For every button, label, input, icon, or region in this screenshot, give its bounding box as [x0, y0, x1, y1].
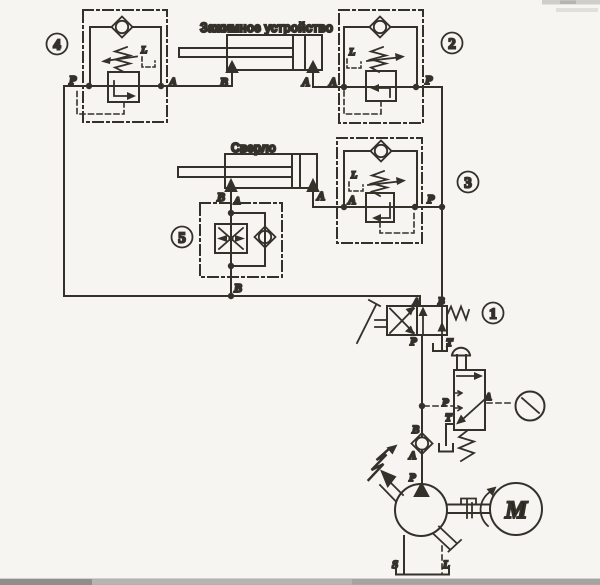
piston line 1 of drill cylinder [291, 154, 293, 188]
check valve of unit 4 [112, 17, 133, 38]
designator circle 2 [442, 33, 463, 54]
valve unit 3 (pressure reducing valve with check valve) enclosure [313, 138, 479, 243]
svg-text:P: P [442, 397, 449, 409]
push button stem of gauge isolator [457, 355, 466, 370]
tank symbol below gauge isolator T [439, 444, 453, 452]
bypass wire left leg of unit 3 [344, 151, 371, 207]
main line A-P of unit 2 [313, 86, 442, 88]
cylinder barrel of clamping cylinder [227, 35, 322, 70]
pilot sensing dashed line of unit 3 [380, 210, 414, 233]
enclosure dash-dot border of unit 2 [339, 10, 423, 123]
junction node at unit 5 top [228, 210, 234, 216]
bypass wire right leg of unit 4 [132, 27, 161, 86]
designator circle 5 [172, 227, 193, 248]
valve unit 4 (pressure reducing valve with check valve) enclosure [47, 10, 233, 122]
clamping cylinder (Зажимное устройство) [179, 20, 344, 89]
designator circle 3 [458, 172, 479, 193]
port A arrow of clamping cylinder [307, 61, 319, 73]
pressure gauge [516, 392, 545, 421]
valve unit 5 (flow control valve with check valve) enclosure [172, 192, 283, 299]
drain line L dashed bracket of unit 2 [347, 59, 361, 68]
svg-text:B: B [437, 296, 445, 307]
check valve of unit 2 [370, 17, 391, 38]
port B arrow of drill cylinder [225, 179, 237, 192]
svg-text:Сверло: Сверло [231, 140, 276, 155]
check valve of unit 5 [255, 227, 276, 248]
long left wire from unit 4 port P down and across to valve 1 port A [64, 86, 420, 306]
drill cylinder (Сверло) [178, 140, 344, 207]
junction node on pump line for gauge pilot [419, 403, 425, 409]
directional valve 1 (4/2 lever operated) [357, 296, 504, 351]
junction node at unit 4 right [158, 83, 164, 89]
svg-text:A: A [484, 392, 492, 403]
enclosure dash-dot border of unit 4 [83, 10, 167, 122]
gauge isolator valve with push button [419, 348, 545, 461]
pump suction wire S [403, 536, 405, 574]
designator circle 1 [483, 303, 504, 324]
junction node on vertical supply wire at unit 3 [439, 204, 445, 210]
enclosure dash-dot border of unit 5 [200, 203, 282, 277]
svg-text:A: A [328, 75, 337, 89]
svg-text:A: A [233, 196, 241, 207]
wire from clamping cylinder port A down and right to unit 2 [313, 72, 344, 87]
flow path arrow inside unit 2 square (points left) [370, 84, 390, 97]
pilot sensing dashed line of unit 2 [344, 90, 381, 114]
spring of unit 4 relief element [115, 47, 130, 72]
drain line L dashed bracket of unit 3 [349, 182, 363, 191]
svg-text:3: 3 [464, 176, 472, 192]
check valve of unit 3 [371, 141, 392, 162]
bypass wire left leg of unit 2 [344, 27, 370, 87]
main line A-P of unit 3 [313, 206, 442, 208]
piston rod of drill cylinder [178, 167, 292, 177]
svg-text:5: 5 [178, 231, 186, 247]
designator circle 4 [47, 34, 68, 55]
drive shaft between pump and motor [447, 505, 490, 514]
check valve on pump line [412, 433, 433, 454]
flow arrow A-P in valve 1 right square [419, 307, 428, 335]
throttle symbol arrows inside unit 5 [217, 228, 245, 249]
svg-text:L: L [348, 47, 355, 58]
adjustment arrow of unit 4 (points left) [101, 57, 137, 65]
tank symbol below valve 1 [433, 344, 447, 351]
pump outlet arrow [414, 483, 429, 497]
port tick P lower on gauge isolator [455, 406, 462, 411]
wire through unit 5 from drill port B [230, 192, 232, 296]
svg-text:L: L [350, 170, 357, 181]
variable displacement solid arrow of pump [380, 470, 397, 489]
svg-text:P: P [425, 73, 433, 87]
svg-text:В: В [233, 281, 242, 295]
electric motor circle [490, 483, 542, 535]
svg-text:A: A [408, 450, 416, 462]
dashed drain wire L to tank [441, 546, 443, 574]
scan artifact smudges at top right edge [542, 0, 600, 12]
svg-text:A: A [301, 75, 310, 89]
svg-text:A: A [347, 193, 356, 207]
spring of unit 2 relief element [371, 47, 386, 72]
svg-text:M: M [504, 497, 528, 524]
bypass wire right leg of unit 2 [390, 27, 417, 87]
reservoir tank below pump [396, 568, 449, 575]
junction node at unit 2 right [413, 84, 419, 90]
wire from drill cylinder port A down and right to unit 3 [313, 191, 344, 207]
rotation direction arc of motor [481, 487, 497, 527]
wire from clamping cylinder port B down to unit 4 line [231, 72, 233, 86]
pump supply wire from valve 1 port P down to pump [421, 335, 423, 484]
svg-text:L: L [442, 559, 450, 571]
junction node at unit 2 left [341, 84, 347, 90]
svg-text:P: P [409, 472, 416, 484]
return spring of valve 1 [447, 307, 469, 320]
main line P-A of unit 4 [64, 85, 232, 87]
adjustment arrow of unit 2 (points right) [367, 53, 405, 61]
bypass wire of unit 5 [231, 213, 265, 266]
svg-text:B: B [411, 424, 419, 436]
wire from valve 1 port T to tank [441, 335, 443, 351]
gauge isolator body [454, 370, 485, 430]
spring of unit 3 relief element [372, 171, 387, 196]
pump case drain stub [433, 527, 461, 552]
zigzag adjustment arrow of pump [369, 445, 398, 481]
valve unit 2 (pressure reducing valve with check valve) enclosure [313, 10, 463, 123]
lever actuator of valve 1 [357, 300, 387, 343]
variable displacement stub channel of pump [380, 479, 403, 502]
port tick P upper on gauge isolator [455, 391, 462, 396]
bypass wire left leg of unit 4 [90, 27, 112, 86]
wire from gauge isolator port T to tank [446, 424, 454, 445]
svg-text:В: В [216, 190, 225, 204]
junction node at unit 3 right [412, 204, 418, 210]
reducing valve body square of unit 2 [366, 71, 396, 101]
svg-text:P: P [69, 73, 77, 87]
junction node where unit 5 wire meets return line [228, 293, 234, 299]
flow arrow at top of gauge isolator (points right) [457, 372, 483, 380]
junction node at unit 3 left [341, 204, 347, 210]
piston line 2 of drill cylinder [299, 154, 301, 188]
scan artifact band at bottom edge [0, 579, 600, 585]
svg-text:2: 2 [448, 37, 456, 53]
flow arrow B-T in valve 1 right square [438, 306, 447, 335]
svg-text:A: A [168, 75, 177, 89]
cylinder barrel of drill cylinder [225, 154, 317, 188]
pilot sensing dashed line of unit 4 [77, 88, 124, 114]
diagonal flow arrow inside gauge isolator [456, 400, 484, 425]
vertical supply wire from unit 2 port P down to valve 1 port B [441, 87, 443, 306]
push button cap of gauge isolator [452, 348, 470, 356]
flow path arrow inside unit 4 square (points right) [114, 81, 136, 100]
throttle body square of unit 5 [215, 224, 247, 253]
spring below gauge isolator [459, 430, 474, 461]
dashed pilot wire from pump line to gauge isolator P [424, 405, 453, 407]
adjustment arrow of unit 3 (points right) [368, 177, 406, 185]
svg-text:1: 1 [489, 307, 497, 323]
junction node at unit 5 bottom [228, 263, 234, 269]
piston line 1 of clamping cylinder [292, 35, 294, 70]
junction node at unit 4 left [86, 83, 92, 89]
valve 1 body [387, 306, 447, 335]
svg-text:P: P [410, 336, 417, 348]
pressure gauge needle [522, 398, 539, 413]
port B arrow of clamping cylinder [226, 61, 238, 73]
piston rod of clamping cylinder [179, 48, 293, 57]
svg-text:S: S [392, 559, 398, 571]
port A arrow of drill cylinder [307, 179, 319, 192]
svg-text:В: В [219, 75, 228, 89]
shaft coupling symbol [461, 499, 476, 519]
reducing valve body square of unit 3 [366, 193, 394, 222]
svg-text:Зажимное устройство: Зажимное устройство [200, 20, 333, 35]
bypass wire right leg of unit 3 [391, 151, 417, 207]
flow path arrow inside unit 3 square (points left) [372, 203, 390, 222]
piston line 2 of clamping cylinder [304, 35, 306, 70]
svg-text:A: A [316, 189, 325, 203]
dashed wire from gauge isolator A to pressure gauge [487, 402, 514, 404]
svg-text:A: A [412, 297, 420, 308]
enclosure dash-dot border of unit 3 [337, 138, 422, 243]
drain line L dashed bracket of unit 4 [142, 57, 155, 67]
pump circle [395, 484, 447, 536]
svg-text:L: L [140, 45, 147, 56]
crossed arrows in valve 1 left square [390, 309, 414, 334]
svg-text:4: 4 [53, 38, 61, 54]
svg-text:P: P [427, 192, 435, 206]
valve 1 position divider [416, 306, 418, 335]
reducing valve body square of unit 4 [108, 72, 139, 102]
